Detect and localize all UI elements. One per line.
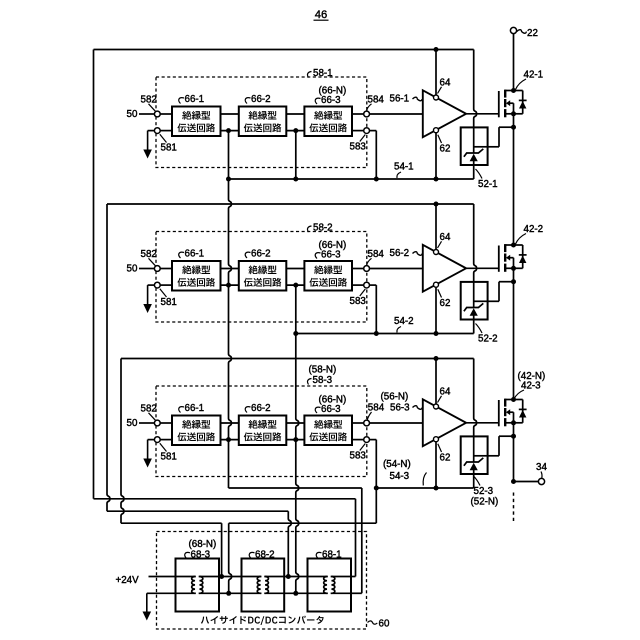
net: ch1 gap-2 link to rail 54-1 bbox=[295, 131, 297, 179]
wire 581 to 66-1 bbox=[160, 130, 172, 132]
wire: driver pin 62 to rail 54-1 bbox=[435, 133, 437, 179]
wire: link 66-1 to 66-2 (lower) bbox=[221, 130, 239, 132]
wire: routing line2 to 68-2 sec+ bbox=[107, 510, 288, 512]
ground arrow ch3 bbox=[148, 439, 155, 441]
svg-text:68-2: 68-2 bbox=[255, 549, 275, 560]
svg-text:+24V: +24V bbox=[116, 575, 140, 586]
svg-text:54-3: 54-3 bbox=[390, 471, 410, 482]
wire: 42-1 source to 42-2 drain bbox=[513, 127, 515, 245]
pin 64 (driver +supply) bbox=[434, 95, 439, 100]
isolated transmission circuit 66-2 (ch1) bbox=[239, 107, 286, 137]
value label: 絶縁型伝送回路 (66-2 ch2) bbox=[249, 265, 277, 274]
body diode of 42-2 bbox=[514, 244, 523, 246]
svg-text:581: 581 bbox=[161, 297, 177, 308]
svg-text:42-3: 42-3 bbox=[521, 381, 541, 392]
svg-text:68-1: 68-1 bbox=[322, 549, 342, 560]
svg-text:66-3: 66-3 bbox=[321, 95, 341, 106]
svg-text:66-1: 66-1 bbox=[185, 403, 205, 414]
svg-text:46: 46 bbox=[315, 9, 327, 21]
value label: 絶縁型伝送回路 (66-1 ch2) bbox=[182, 265, 210, 274]
svg-text:50: 50 bbox=[127, 264, 138, 275]
wire: link 66-1 to 66-2 (upper) bbox=[221, 268, 239, 270]
net 54-2: driver return rail bbox=[296, 333, 474, 335]
wire: 42-2 source to 42-3 drain bbox=[513, 282, 515, 400]
svg-text:584: 584 bbox=[368, 249, 385, 260]
wire 582 to 66-1 bbox=[160, 268, 172, 270]
transformer 68-1 bbox=[308, 559, 352, 612]
wire: source to clamp 52-3 bbox=[513, 423, 515, 436]
svg-text:584: 584 bbox=[368, 94, 385, 105]
isolated transmission circuit 66-2 (ch3) bbox=[239, 416, 286, 446]
value label: 絶縁型伝送回路 (66-2 ch1) bbox=[249, 111, 277, 120]
wire: 68-3 sec to 68-2 pri (upper) bbox=[219, 576, 242, 578]
svg-text:(68-N): (68-N) bbox=[189, 539, 217, 550]
junction: 42-3 drain bbox=[511, 397, 516, 402]
pin 64 (driver +supply) bbox=[434, 250, 439, 255]
wire 581 to 66-1 bbox=[160, 284, 172, 286]
svg-text:66-2: 66-2 bbox=[251, 249, 271, 260]
ground arrow ch2 bbox=[148, 284, 155, 286]
wire: 42-3 source to output node bbox=[513, 436, 515, 481]
net: ch1 positive supply rail (to pin 64) bbox=[94, 49, 474, 51]
isolated transmission circuit 66-3 (ch2) bbox=[304, 261, 352, 291]
wire: rail to driver pin 64 bbox=[435, 50, 437, 96]
wire: routing line1 to 68-1 sec+ bbox=[94, 498, 356, 500]
terminal 583 bbox=[364, 128, 370, 134]
wire: 22 to 42-1 drain bbox=[513, 34, 515, 91]
net 54-3: drop from 583/rail3 to routing and 68-3 sec- tap bbox=[375, 488, 377, 523]
isolated transmission circuit 66-1 (ch1) bbox=[172, 107, 221, 137]
wire: link 66-2 to 66-3 (lower) bbox=[286, 439, 304, 441]
terminal 582 bbox=[154, 420, 160, 426]
isolated transmission circuit 66-2 (ch2) bbox=[239, 261, 286, 291]
wire: drop to 68-1 sec+ upper tap bbox=[355, 499, 357, 577]
svg-text:56-3: 56-3 bbox=[390, 403, 410, 414]
wire: driver pin 62 to rail 54-2 bbox=[435, 287, 437, 333]
svg-text:56-2: 56-2 bbox=[390, 248, 410, 259]
terminal 582 bbox=[154, 266, 160, 272]
wire: supply rail to clamp 52-2 top bbox=[474, 204, 477, 282]
svg-text:581: 581 bbox=[161, 143, 177, 154]
svg-text:50: 50 bbox=[127, 109, 138, 120]
wire: routing line3 to 68-3 sec+ bbox=[121, 522, 222, 524]
value label: 絶縁型伝送回路 (66-1 ch3) bbox=[182, 420, 210, 429]
svg-text:42-2: 42-2 bbox=[524, 224, 544, 235]
wire: 68-2 sec to 68-1 pri (upper) bbox=[284, 576, 307, 578]
wire: link 66-2 to 66-3 (lower) bbox=[286, 284, 304, 286]
terminal 22 bbox=[510, 27, 516, 33]
wire: driver output to gate of 42-2 bbox=[466, 267, 499, 269]
wire 66-3 to terminal 584 bbox=[352, 113, 364, 115]
wire: primary return bbox=[147, 592, 176, 594]
terminal 584 bbox=[364, 420, 370, 426]
svg-text:66-1: 66-1 bbox=[185, 94, 205, 105]
svg-text:54-1: 54-1 bbox=[394, 162, 414, 173]
svg-text:66-3: 66-3 bbox=[321, 404, 341, 415]
label: ハイサイドDC/DCコンバータ bbox=[201, 616, 324, 625]
wire: link 66-2 to 66-3 (upper) bbox=[286, 113, 304, 115]
terminal 50 input wire ch2 bbox=[139, 268, 155, 270]
module 58-1 dashed box bbox=[156, 77, 367, 168]
transistor 42-2 (N-MOSFET) bbox=[498, 246, 500, 272]
terminal 50 input wire ch3 bbox=[139, 422, 155, 424]
svg-text:62: 62 bbox=[440, 298, 451, 309]
svg-text:584: 584 bbox=[368, 403, 385, 414]
zener clamp 52-2 bbox=[461, 282, 488, 320]
op-amp driver 56-2 bbox=[423, 245, 466, 292]
wire 584 to driver 56-3 bbox=[370, 422, 423, 424]
wire 583 to rail 54-2 bbox=[370, 284, 377, 286]
terminal 583 bbox=[364, 437, 370, 443]
wire: drop to 68-2 sec+ tap with jog bbox=[288, 511, 291, 576]
svg-text:52-2: 52-2 bbox=[478, 333, 498, 344]
terminal 584 bbox=[364, 266, 370, 272]
wire: ch2 +supply from DC/DC 68-2 (left bus v2) bbox=[107, 204, 110, 511]
svg-text:583: 583 bbox=[350, 296, 367, 307]
wire: link 66-2 to 66-3 (lower) bbox=[286, 130, 304, 132]
svg-text:52-1: 52-1 bbox=[478, 179, 498, 190]
terminal 584 bbox=[364, 111, 370, 117]
ground arrow ch1 bbox=[148, 130, 155, 132]
terminal 582 bbox=[154, 111, 160, 117]
wire: ch1 +supply from DC/DC 68-1 (left bus v1) bbox=[93, 50, 95, 499]
junction: output node 34 bbox=[511, 479, 516, 484]
wire: drop to 68-3 sec+ tap bbox=[221, 523, 223, 576]
svg-text:581: 581 bbox=[161, 452, 177, 463]
value label: 絶縁型伝送回路 (66-2 ch3) bbox=[249, 420, 277, 429]
svg-text:583: 583 bbox=[350, 142, 367, 153]
junction: 42-1 drain bbox=[511, 88, 516, 93]
wire 584 to driver 56-2 bbox=[370, 268, 423, 270]
wire 584 to driver 56-1 bbox=[370, 113, 423, 115]
transformer 68-3 bbox=[176, 559, 220, 612]
isolated transmission circuit 66-3 (ch1) bbox=[304, 107, 352, 137]
wire: rail to driver pin 64 bbox=[435, 359, 437, 405]
svg-text:60: 60 bbox=[379, 619, 390, 630]
svg-text:66-2: 66-2 bbox=[251, 403, 271, 414]
zener clamp 52-1 bbox=[461, 127, 488, 165]
svg-text:62: 62 bbox=[440, 452, 451, 463]
value label: 絶縁型伝送回路 (66-1 ch1) bbox=[182, 111, 210, 120]
terminal 581 bbox=[154, 282, 160, 288]
wire: link 66-1 to 66-2 (lower) bbox=[221, 284, 239, 286]
svg-text:34: 34 bbox=[536, 462, 547, 473]
wire: 68-2 sec to 68-1 pri (lower) bbox=[284, 592, 307, 594]
terminal 581 bbox=[154, 128, 160, 134]
wire: node to terminal 34 bbox=[514, 481, 539, 483]
wire: source to clamp 52-1 bbox=[513, 114, 515, 127]
net: ch2 positive supply rail (to pin 64) bbox=[107, 203, 474, 205]
junction: source tap node bbox=[511, 279, 516, 284]
transformer 68-2 bbox=[242, 559, 285, 612]
wire 583 to rail 54-3 bbox=[370, 439, 377, 441]
terminal 34 bbox=[538, 478, 544, 484]
isolated transmission circuit 66-3 (ch3) bbox=[304, 416, 352, 446]
svg-text:54-2: 54-2 bbox=[394, 316, 414, 327]
value label: 絶縁型伝送回路 (66-3 ch2) bbox=[314, 265, 342, 274]
svg-text:(54-N): (54-N) bbox=[383, 459, 411, 470]
wire 66-3 to terminal 583 bbox=[352, 130, 364, 132]
high-side DC/DC converter 60 dashed box bbox=[157, 532, 367, 630]
body diode of 42-1 bbox=[514, 90, 523, 92]
junction: source tap node bbox=[511, 125, 516, 130]
wire 582 to 66-1 bbox=[160, 113, 172, 115]
wire: link 66-1 to 66-2 (upper) bbox=[221, 113, 239, 115]
svg-text:58-1: 58-1 bbox=[313, 68, 333, 79]
value label: 絶縁型伝送回路 (66-3 ch3) bbox=[314, 420, 342, 429]
pin 62 (driver -supply) bbox=[434, 282, 439, 287]
wire: rail3-left horizontal to 68-1 sec- drop bbox=[229, 487, 362, 489]
wire: rail to driver pin 64 bbox=[435, 204, 437, 250]
svg-text:68-3: 68-3 bbox=[191, 549, 211, 560]
pin 64 (driver +supply) bbox=[434, 404, 439, 409]
module 58-3 dashed box bbox=[156, 386, 367, 477]
wire 66-3 to terminal 584 bbox=[352, 422, 364, 424]
wire 66-3 to terminal 583 bbox=[352, 439, 364, 441]
net 54-2: gap-2 vertical from ch2 stage-2 interface down to 68-2 sec- tap bbox=[296, 285, 299, 593]
terminal 50 input wire ch1 bbox=[139, 113, 155, 115]
terminal 583 bbox=[364, 282, 370, 288]
value label: 絶縁型伝送回路 (66-3 ch1) bbox=[314, 111, 342, 120]
svg-text:66-3: 66-3 bbox=[321, 249, 341, 260]
terminal 581 bbox=[154, 437, 160, 443]
wire 582 to 66-1 bbox=[160, 422, 172, 424]
net 54-1: gap-1 vertical linking ch1 rail, ch2/ch3 stage-1 interfaces, to rail3-left bbox=[229, 131, 232, 488]
svg-text:52-3: 52-3 bbox=[474, 486, 494, 497]
svg-text:(52-N): (52-N) bbox=[471, 497, 499, 508]
wire: link 66-2 to 66-3 (upper) bbox=[286, 268, 304, 270]
wire: driver pin 62 to rail 54-3 bbox=[435, 442, 437, 488]
wire: driver output to gate of 42-1 bbox=[466, 113, 499, 115]
isolated transmission circuit 66-1 (ch3) bbox=[172, 416, 221, 446]
module 58-2 dashed box bbox=[156, 232, 367, 323]
isolated transmission circuit 66-1 (ch2) bbox=[172, 261, 221, 291]
wire 66-3 to terminal 583 bbox=[352, 284, 364, 286]
pin 62 (driver -supply) bbox=[434, 128, 439, 133]
junction: source tap node bbox=[511, 434, 516, 439]
wire: supply rail to clamp 52-1 top bbox=[474, 50, 477, 128]
ground arrow (24V return) bbox=[146, 593, 148, 612]
svg-text:66-2: 66-2 bbox=[251, 94, 271, 105]
op-amp driver 56-1 bbox=[423, 90, 466, 137]
junction: 42-2 drain bbox=[511, 243, 516, 248]
junction: 42-1 source bbox=[511, 111, 516, 116]
svg-text:22: 22 bbox=[527, 28, 538, 39]
svg-text:66-1: 66-1 bbox=[185, 249, 205, 260]
body diode of 42-3 bbox=[514, 399, 523, 401]
wire 583 to rail 54-1 bbox=[370, 130, 377, 132]
wire: supply rail to clamp 52-3 top bbox=[474, 359, 477, 437]
wire: 68-3 sec to 68-2 pri (lower) bbox=[219, 592, 242, 594]
wire: driver output to gate of 42-3 bbox=[466, 422, 499, 424]
net: ch3 positive supply rail (to pin 64) bbox=[121, 358, 474, 360]
wire: source to clamp 52-2 bbox=[513, 268, 515, 281]
wire: link 66-1 to 66-2 (upper) bbox=[221, 422, 239, 424]
wire: 68-1 sec- drop bbox=[361, 488, 363, 593]
svg-text:583: 583 bbox=[350, 451, 367, 462]
wire: link 66-2 to 66-3 (upper) bbox=[286, 422, 304, 424]
net 54-1: driver return rail bbox=[229, 178, 474, 180]
svg-text:62: 62 bbox=[440, 143, 451, 154]
svg-text:58-3: 58-3 bbox=[313, 375, 333, 386]
wire: link 66-1 to 66-2 (lower) bbox=[221, 439, 239, 441]
svg-text:56-1: 56-1 bbox=[390, 94, 410, 105]
svg-text:50: 50 bbox=[127, 418, 138, 429]
svg-text:42-1: 42-1 bbox=[524, 70, 544, 81]
svg-text:58-2: 58-2 bbox=[313, 222, 333, 233]
junction: 42-2 source bbox=[511, 266, 516, 271]
transistor 42-3 (N-MOSFET) bbox=[498, 400, 500, 426]
wire: dashed continuation (to further stages) bbox=[513, 493, 515, 522]
op-amp driver 56-3 bbox=[423, 399, 466, 446]
zener clamp 52-3 bbox=[461, 436, 488, 474]
net 54-3: driver return rail bbox=[376, 487, 473, 489]
transistor 42-1 (N-MOSFET) bbox=[498, 91, 500, 117]
junction: 42-3 source bbox=[511, 420, 516, 425]
wire 66-3 to terminal 584 bbox=[352, 268, 364, 270]
svg-text:(56-N): (56-N) bbox=[381, 392, 409, 403]
wire 581 to 66-1 bbox=[160, 439, 172, 441]
wire: ch3 +supply from DC/DC 68-3 (left bus v3) bbox=[121, 359, 124, 524]
wire: +24V input bbox=[149, 576, 176, 578]
pin 62 (driver -supply) bbox=[434, 437, 439, 442]
